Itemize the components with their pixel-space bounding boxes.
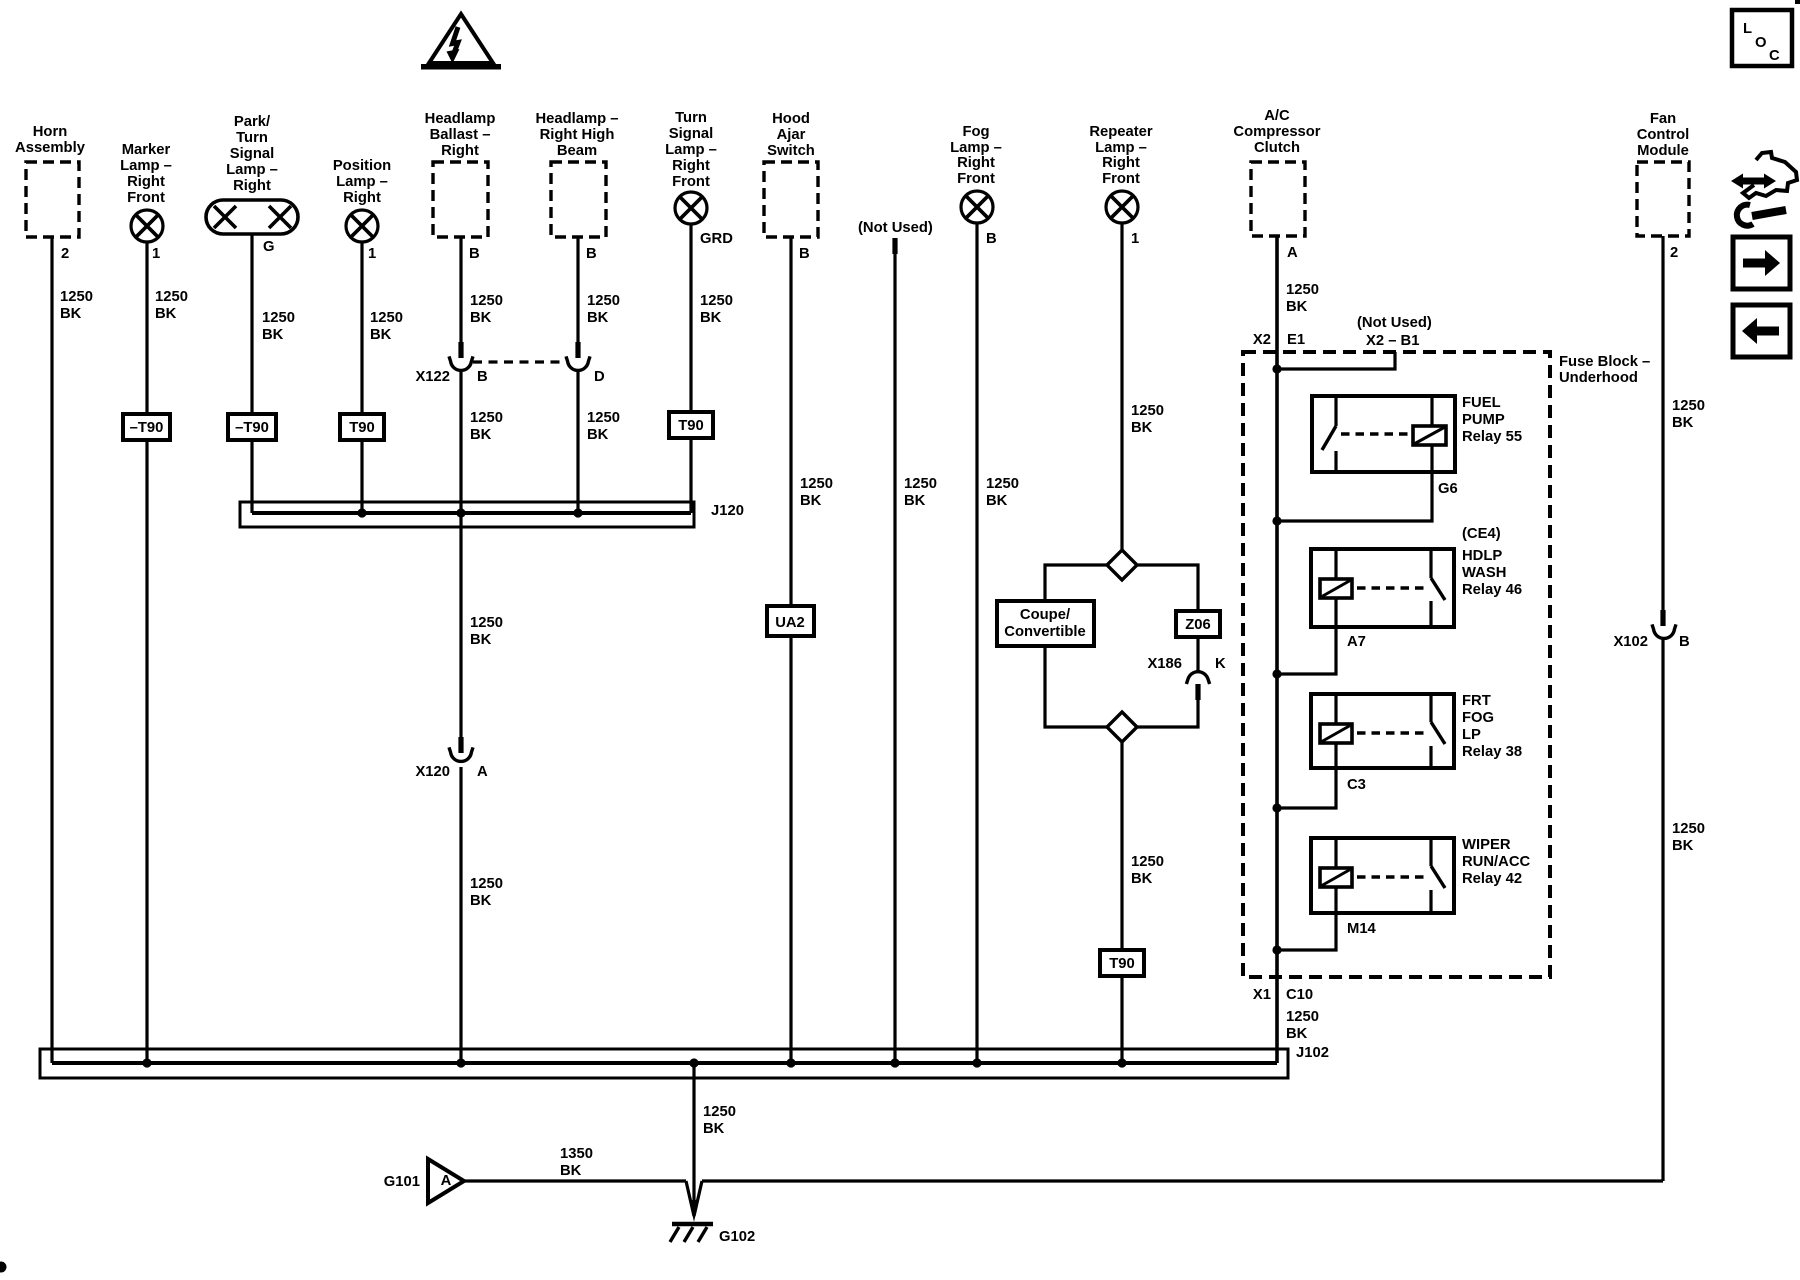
svg-text:1250: 1250 — [904, 476, 937, 492]
splice pack J102 — [40, 1045, 1329, 1078]
ground arrow into G102 — [686, 1181, 702, 1222]
svg-text:Underhood: Underhood — [1559, 370, 1638, 386]
option box Coupe/Convertible — [997, 601, 1094, 646]
relay K38 FRT FOG LP Relay 38 — [1311, 693, 1522, 768]
splice diamond lower (repeater wire) — [1107, 712, 1137, 742]
svg-text:D: D — [594, 369, 605, 385]
lamp symbol (Fog Lamp) — [961, 191, 993, 223]
svg-text:A: A — [1287, 245, 1298, 261]
svg-text:BK: BK — [986, 493, 1008, 509]
wire relay 42 pin M14 to ground bus — [1272, 913, 1336, 955]
wire label 1250 BK (repeater lower) — [1131, 854, 1164, 887]
svg-text:T90: T90 — [349, 420, 375, 436]
dashed connector tie line X122 B to D — [473, 360, 564, 363]
svg-text:J120: J120 — [711, 503, 744, 519]
wire label 1250 BK (not used) — [904, 476, 937, 509]
connector X120 pin A — [415, 737, 488, 780]
wire X102 to ground run — [1661, 640, 1664, 1181]
svg-text:Hood: Hood — [772, 111, 810, 127]
svg-text:Z06: Z06 — [1185, 617, 1211, 633]
warning triangle icon — [421, 14, 501, 70]
wire relay 55 pin G6 to ground bus — [1272, 472, 1432, 526]
svg-text:2: 2 — [1670, 245, 1678, 261]
svg-text:G102: G102 — [719, 1229, 755, 1245]
svg-text:Signal: Signal — [669, 126, 713, 142]
svg-text:Headlamp –: Headlamp – — [535, 111, 618, 127]
svg-text:J102: J102 — [1296, 1045, 1329, 1061]
wire turn signal lamp to J120 — [689, 224, 692, 513]
svg-text:T90: T90 — [1109, 956, 1135, 972]
svg-text:1250: 1250 — [800, 476, 833, 492]
svg-text:Front: Front — [672, 174, 710, 190]
splice box T90 (repeater wire) — [1100, 950, 1144, 976]
svg-text:BK: BK — [703, 1121, 725, 1137]
svg-text:Convertible: Convertible — [1004, 624, 1085, 640]
svg-text:BK: BK — [470, 893, 492, 909]
svg-text:X102: X102 — [1613, 634, 1648, 650]
lamp symbol (Repeater Lamp) — [1106, 191, 1138, 223]
wire label 1250 BK (fan upper) — [1672, 398, 1705, 431]
wire label 1250 BK (fog) — [986, 476, 1019, 509]
wire X120 to J102 — [459, 767, 462, 1063]
svg-text:Ajar: Ajar — [777, 127, 806, 143]
svg-text:Clutch: Clutch — [1254, 140, 1300, 156]
component A/C Compressor Clutch — [1233, 108, 1320, 236]
svg-text:1250: 1250 — [470, 293, 503, 309]
wire not used to J102 — [893, 254, 896, 1063]
wire label 1350 BK (ground run) — [560, 1146, 593, 1179]
svg-text:Lamp –: Lamp – — [665, 142, 717, 158]
svg-text:Right High: Right High — [540, 127, 615, 143]
wire label 1250 BK (repeater upper) — [1131, 403, 1164, 436]
svg-text:B: B — [1679, 634, 1690, 650]
svg-text:1250: 1250 — [1131, 403, 1164, 419]
svg-text:–T90: –T90 — [130, 420, 164, 436]
svg-text:BK: BK — [560, 1163, 582, 1179]
svg-text:Control: Control — [1637, 127, 1690, 143]
svg-text:BK: BK — [1131, 871, 1153, 887]
svg-text:Position: Position — [333, 158, 391, 174]
svg-text:1: 1 — [368, 246, 376, 262]
svg-text:A: A — [477, 764, 488, 780]
svg-text:X120: X120 — [415, 764, 450, 780]
wire label 1250 BK (high beam upper) — [587, 293, 620, 326]
scan artifact mark top-right — [1795, 0, 1800, 4]
svg-text:Front: Front — [957, 171, 995, 187]
svg-text:BK: BK — [1672, 838, 1694, 854]
relay K42 WIPER RUN/ACC Relay 42 — [1311, 837, 1531, 913]
svg-text:BK: BK — [370, 327, 392, 343]
wire z06 branch (right) — [1137, 565, 1198, 727]
svg-text:Relay 42: Relay 42 — [1462, 871, 1522, 887]
connector label X1 / C10 at fuse block exit — [1253, 987, 1313, 1003]
svg-text:BK: BK — [1286, 1026, 1308, 1042]
svg-text:Switch: Switch — [767, 143, 815, 159]
svg-text:B: B — [799, 246, 810, 262]
svg-text:Right: Right — [672, 158, 710, 174]
lamp symbol (Marker Lamp) — [131, 210, 163, 242]
svg-text:BK: BK — [587, 310, 609, 326]
svg-text:L: L — [1743, 21, 1752, 37]
svg-text:1: 1 — [152, 246, 160, 262]
svg-text:Beam: Beam — [557, 143, 597, 159]
svg-text:BK: BK — [1672, 415, 1694, 431]
wire high beam to connector X122-D — [576, 237, 579, 342]
svg-text:Front: Front — [1102, 171, 1140, 187]
svg-text:GRD: GRD — [700, 231, 733, 247]
svg-text:1250: 1250 — [703, 1104, 736, 1120]
connector label X2 / E1 at fuse block entry — [1253, 332, 1305, 348]
svg-text:1250: 1250 — [1672, 821, 1705, 837]
svg-text:1250: 1250 — [1672, 398, 1705, 414]
splice box -T90 (park/turn wire) — [228, 414, 276, 440]
svg-text:1250: 1250 — [470, 615, 503, 631]
svg-text:BK: BK — [262, 327, 284, 343]
svg-text:Relay 46: Relay 46 — [1462, 582, 1522, 598]
wire label 1250 BK (park/turn) — [262, 310, 295, 343]
svg-text:Assembly: Assembly — [15, 140, 86, 156]
wire headlamp ballast to connector X122 — [459, 237, 462, 342]
scan artifact dot bottom-left — [0, 1262, 7, 1273]
forward arrow box icon — [1733, 237, 1790, 289]
svg-text:FUEL: FUEL — [1462, 395, 1501, 411]
svg-text:WIPER: WIPER — [1462, 837, 1511, 853]
svg-text:2: 2 — [61, 246, 69, 262]
relay K55 FUEL PUMP Relay 55 — [1312, 395, 1522, 472]
wire marker lamp to J102 — [145, 242, 148, 1063]
wire J102 to ground G102 — [692, 1063, 695, 1205]
svg-text:BK: BK — [155, 306, 177, 322]
connector stub X2-B1 (not used) — [1272, 315, 1431, 374]
svg-text:BK: BK — [470, 632, 492, 648]
component Park/Turn Signal Lamp - Right — [226, 114, 278, 194]
LOC legend box — [1732, 10, 1792, 66]
svg-text:Lamp –: Lamp – — [950, 140, 1002, 156]
svg-text:PUMP: PUMP — [1462, 412, 1505, 428]
svg-text:Headlamp: Headlamp — [425, 111, 496, 127]
svg-text:G6: G6 — [1438, 481, 1458, 497]
svg-text:Right: Right — [1102, 155, 1140, 171]
wire park/turn lamp to J120 — [250, 234, 253, 513]
wire label 1250 BK (horn) — [60, 289, 93, 322]
svg-text:Right: Right — [441, 143, 479, 159]
svg-text:Lamp –: Lamp – — [226, 162, 278, 178]
svg-text:–T90: –T90 — [235, 420, 269, 436]
back arrow box icon — [1733, 305, 1790, 357]
svg-text:1: 1 — [1131, 231, 1139, 247]
svg-text:Compressor: Compressor — [1233, 124, 1320, 140]
splice pack J120 — [240, 502, 744, 527]
lamp symbol (Turn Signal Lamp) — [675, 192, 707, 224]
wire J120 to connector X120 — [459, 513, 462, 737]
splice box T90 (turn signal wire) — [669, 412, 713, 438]
splice box UA2 (hood ajar wire) — [767, 606, 814, 636]
wire position lamp to J120 — [360, 242, 363, 513]
terminal stub (not used wire) — [892, 238, 897, 254]
connector X186 pin K — [1147, 656, 1226, 700]
splice diamond upper (repeater wire) — [1107, 550, 1137, 580]
svg-text:E1: E1 — [1287, 332, 1305, 348]
svg-text:BK: BK — [470, 310, 492, 326]
connector X122 pin B — [415, 342, 488, 385]
svg-text:Turn: Turn — [675, 110, 707, 126]
svg-text:1250: 1250 — [587, 293, 620, 309]
wire label 1250 BK (marker) — [155, 289, 188, 322]
svg-text:BK: BK — [904, 493, 926, 509]
svg-text:G: G — [263, 239, 275, 255]
wire label 1250 BK (ballast lower) — [470, 410, 503, 443]
svg-text:(CE4): (CE4) — [1462, 526, 1501, 542]
component Turn Signal Lamp - Right Front — [665, 110, 717, 190]
wire X122-B to J120 — [459, 372, 462, 513]
component Fog Lamp - Right Front — [950, 124, 1002, 187]
svg-text:G101: G101 — [384, 1174, 420, 1190]
svg-text:1250: 1250 — [470, 876, 503, 892]
splice box -T90 (marker wire) — [123, 414, 170, 440]
svg-text:Marker: Marker — [122, 142, 171, 158]
component Horn Assembly — [15, 124, 86, 237]
connector X102 pin B — [1613, 610, 1690, 650]
svg-text:1250: 1250 — [986, 476, 1019, 492]
svg-text:A/C: A/C — [1264, 108, 1290, 124]
wire horn assembly to J102 — [50, 237, 53, 1063]
svg-text:Coupe/: Coupe/ — [1020, 607, 1070, 623]
svg-text:K: K — [1215, 656, 1226, 672]
svg-text:UA2: UA2 — [775, 615, 805, 631]
svg-text:A7: A7 — [1347, 634, 1366, 650]
svg-text:X122: X122 — [415, 369, 450, 385]
svg-text:B: B — [477, 369, 488, 385]
svg-text:FOG: FOG — [1462, 710, 1494, 726]
svg-text:BK: BK — [60, 306, 82, 322]
svg-text:LP: LP — [1462, 727, 1481, 743]
svg-text:1250: 1250 — [262, 310, 295, 326]
wire label 1250 BK (fuse block to J102) — [1286, 1009, 1319, 1042]
component Fan Control Module — [1637, 111, 1690, 236]
svg-text:A: A — [441, 1173, 452, 1189]
svg-text:(Not Used): (Not Used) — [1357, 315, 1432, 331]
ground reference triangle G101 — [384, 1159, 464, 1203]
dual filament lamp symbol (Park/Turn Signal Lamp) — [206, 200, 298, 234]
svg-text:Relay 55: Relay 55 — [1462, 429, 1522, 445]
wire label 1250 BK (turn signal) — [700, 293, 733, 326]
wire X122-D to J120 — [576, 372, 579, 513]
wire label 1250 BK (ballast upper) — [470, 293, 503, 326]
wire label 1250 BK (fan lower) — [1672, 821, 1705, 854]
svg-text:C10: C10 — [1286, 987, 1313, 1003]
svg-text:(Not Used): (Not Used) — [858, 220, 933, 236]
svg-text:Fan: Fan — [1650, 111, 1676, 127]
wire coupe branch (left) — [1045, 565, 1107, 727]
relay K46 HDLP WASH Relay 46 — [1311, 526, 1522, 627]
component Hood Ajar Switch — [764, 111, 818, 237]
svg-text:Repeater: Repeater — [1089, 124, 1153, 140]
svg-text:Module: Module — [1637, 143, 1689, 159]
svg-text:BK: BK — [587, 427, 609, 443]
wire hood ajar switch to J102 — [789, 237, 792, 1063]
svg-text:Lamp –: Lamp – — [1095, 140, 1147, 156]
svg-text:Lamp –: Lamp – — [120, 158, 172, 174]
svg-text:1250: 1250 — [60, 289, 93, 305]
svg-text:C3: C3 — [1347, 777, 1366, 793]
svg-text:Front: Front — [127, 190, 165, 206]
wire relay 46 pin A7 to ground bus — [1272, 627, 1336, 679]
svg-text:Park/: Park/ — [234, 114, 270, 130]
wire lower diamond to J102 — [1120, 742, 1123, 1063]
wire label 1250 BK (hood ajar) — [800, 476, 833, 509]
svg-text:BK: BK — [800, 493, 822, 509]
wire relay 38 pin C3 to ground bus — [1272, 768, 1336, 813]
option box Z06 — [1176, 611, 1220, 637]
svg-text:X1: X1 — [1253, 987, 1271, 1003]
component Repeater Lamp - Right Front — [1089, 124, 1153, 187]
svg-text:BK: BK — [1131, 420, 1153, 436]
wire label 1250 BK (position) — [370, 310, 403, 343]
svg-text:HDLP: HDLP — [1462, 548, 1502, 564]
wire fog lamp to J102 — [975, 223, 978, 1063]
component Position Lamp - Right — [333, 158, 391, 206]
svg-text:B: B — [986, 231, 997, 247]
component Headlamp - Right High Beam — [535, 111, 618, 237]
svg-text:1250: 1250 — [370, 310, 403, 326]
svg-text:M14: M14 — [1347, 921, 1377, 937]
svg-text:X2: X2 — [1253, 332, 1271, 348]
svg-text:Right: Right — [127, 174, 165, 190]
wire label 1250 BK (high beam lower) — [587, 410, 620, 443]
svg-text:C: C — [1769, 48, 1780, 64]
svg-text:Ballast –: Ballast – — [430, 127, 491, 143]
svg-text:Right: Right — [233, 178, 271, 194]
svg-text:B: B — [586, 246, 597, 262]
wire fan control module to connector X102 — [1661, 236, 1664, 610]
svg-text:Fuse Block –: Fuse Block – — [1559, 354, 1650, 370]
svg-text:X2 – B1: X2 – B1 — [1366, 333, 1419, 349]
svg-text:BK: BK — [470, 427, 492, 443]
svg-text:Right: Right — [957, 155, 995, 171]
svg-text:RUN/ACC: RUN/ACC — [1462, 854, 1531, 870]
connector X122 pin D — [566, 342, 605, 385]
svg-text:X186: X186 — [1147, 656, 1182, 672]
svg-text:Lamp –: Lamp – — [336, 174, 388, 190]
svg-text:1350: 1350 — [560, 1146, 593, 1162]
wire G101 ground run to fan wire — [464, 1179, 1663, 1182]
fuse block underhood dashed outline — [1243, 352, 1650, 977]
svg-text:1250: 1250 — [587, 410, 620, 426]
svg-text:Signal: Signal — [230, 146, 274, 162]
wire repeater lamp to splice diamond — [1120, 223, 1123, 550]
component Marker Lamp - Right Front — [120, 142, 172, 206]
svg-text:1250: 1250 — [1131, 854, 1164, 870]
svg-text:Horn: Horn — [33, 124, 68, 140]
svg-text:1250: 1250 — [700, 293, 733, 309]
svg-text:Relay 38: Relay 38 — [1462, 744, 1522, 760]
svg-text:Turn: Turn — [236, 130, 268, 146]
hand with double arrow and wrench icon — [1731, 152, 1797, 226]
svg-text:1250: 1250 — [470, 410, 503, 426]
svg-text:B: B — [469, 246, 480, 262]
svg-text:BK: BK — [1286, 299, 1308, 315]
svg-text:T90: T90 — [678, 418, 704, 434]
svg-text:Fog: Fog — [962, 124, 989, 140]
ground symbol G102 — [670, 1224, 755, 1245]
svg-text:1250: 1250 — [1286, 1009, 1319, 1025]
svg-text:O: O — [1755, 35, 1767, 51]
component Headlamp Ballast - Right — [425, 111, 496, 237]
lamp symbol (Position Lamp) — [346, 210, 378, 242]
wire label 1250 BK (X120 to J102) — [470, 876, 503, 909]
svg-text:FRT: FRT — [1462, 693, 1491, 709]
svg-text:Right: Right — [343, 190, 381, 206]
svg-text:1250: 1250 — [155, 289, 188, 305]
svg-text:BK: BK — [700, 310, 722, 326]
splice box T90 (position wire) — [340, 414, 384, 440]
wire label 1250 BK (A/C) — [1286, 282, 1319, 315]
svg-text:WASH: WASH — [1462, 565, 1506, 581]
wire A/C compressor clutch to J102 (ground bus) — [1275, 236, 1279, 1063]
wire label 1250 BK (J120 to X120) — [470, 615, 503, 648]
wire label 1250 BK (ground tap) — [703, 1104, 736, 1137]
svg-text:1250: 1250 — [1286, 282, 1319, 298]
